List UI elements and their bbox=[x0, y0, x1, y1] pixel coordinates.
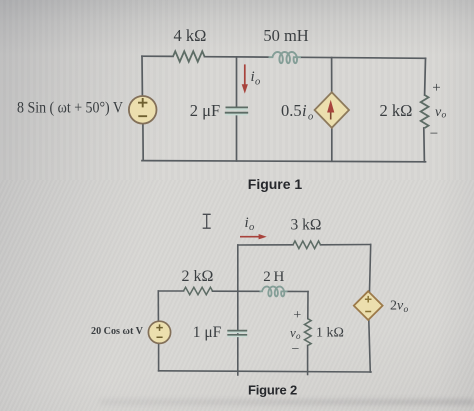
svg-text:1 μF: 1 μF bbox=[193, 324, 222, 341]
svg-text:o: o bbox=[308, 112, 313, 123]
svg-text:o: o bbox=[296, 331, 301, 341]
svg-text:50 mH: 50 mH bbox=[263, 26, 308, 45]
svg-text:2 μF: 2 μF bbox=[190, 101, 220, 120]
svg-text:+: + bbox=[293, 308, 301, 323]
svg-text:3 kΩ: 3 kΩ bbox=[291, 217, 322, 234]
svg-text:2 kΩ: 2 kΩ bbox=[380, 101, 413, 120]
svg-text:Figure 1: Figure 1 bbox=[248, 176, 303, 192]
svg-text:o: o bbox=[249, 222, 254, 233]
svg-text:i: i bbox=[302, 101, 307, 120]
svg-text:o: o bbox=[442, 111, 447, 121]
svg-text:2 H: 2 H bbox=[263, 269, 284, 285]
svg-text:+: + bbox=[432, 80, 440, 96]
svg-text:8 Sin ( ωt + 50°) V: 8 Sin ( ωt + 50°) V bbox=[17, 100, 123, 117]
svg-text:0.5: 0.5 bbox=[281, 101, 302, 120]
svg-text:Figure 2: Figure 2 bbox=[248, 383, 297, 398]
svg-text:20 Cos ωt V: 20 Cos ωt V bbox=[91, 326, 143, 337]
svg-text:1 kΩ: 1 kΩ bbox=[316, 326, 344, 341]
svg-text:o: o bbox=[404, 305, 409, 315]
svg-text:4 kΩ: 4 kΩ bbox=[174, 26, 207, 45]
svg-text:2: 2 bbox=[390, 299, 397, 314]
svg-text:2 kΩ: 2 kΩ bbox=[182, 268, 214, 285]
svg-text:−: − bbox=[292, 342, 300, 357]
svg-text:o: o bbox=[255, 77, 260, 88]
svg-text:−: − bbox=[430, 126, 438, 142]
